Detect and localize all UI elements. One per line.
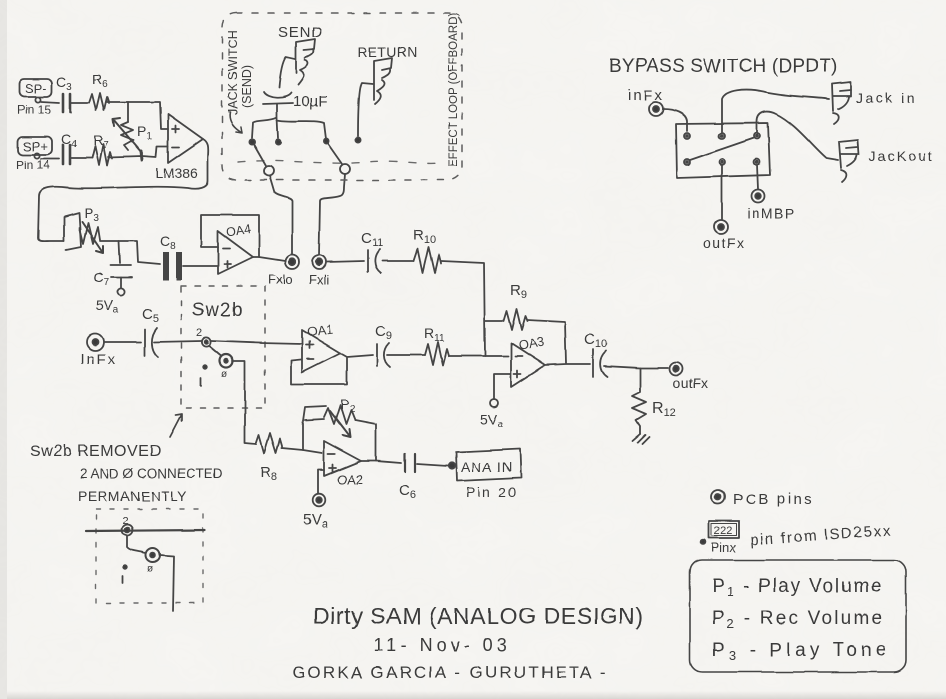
ground below R12 [632, 434, 649, 444]
svg-text:10µF: 10µF [293, 93, 328, 110]
wire OA2 output to C6 [361, 461, 401, 463]
replacement jumper wire [127, 536, 146, 553]
svg-text:PERMANENTLY: PERMANENTLY [78, 488, 188, 504]
effect loop offboard dashed enclosure [222, 13, 462, 180]
power 5Va at OA2 [303, 494, 328, 530]
OA1 feedback wire [291, 358, 347, 384]
node outFx pcb pin (output) [670, 363, 709, 392]
resistor R7 [92, 132, 112, 165]
capacitor C10 [584, 331, 607, 377]
node inFx pcb pin [649, 102, 663, 116]
callout arrow to send contact [230, 112, 242, 133]
wire InFx to C5 [104, 341, 141, 343]
svg-text:P1 - Play Volume: P1 - Play Volume [712, 576, 883, 599]
svg-text:ø: ø [147, 564, 153, 575]
svg-text:Pin 15: Pin 15 [17, 103, 51, 117]
svg-text:Pinx: Pinx [711, 540, 737, 555]
wire switch to Jack out [757, 112, 838, 160]
node Fxlo pcb pin [268, 255, 299, 287]
node inMBP pcb pin [747, 190, 796, 222]
pin 15 label [17, 97, 51, 117]
svg-text:outFx: outFx [673, 375, 708, 391]
svg-text:2: 2 [196, 327, 202, 339]
wire C5 to Sw2b [154, 341, 201, 342]
svg-text:ø: ø [221, 369, 227, 380]
wire C9 to R11 [387, 354, 425, 356]
svg-text:EFFECT LOOP (OFFBOARD): EFFECT LOOP (OFFBOARD) [448, 13, 460, 167]
svg-text:SP+: SP+ [23, 139, 48, 154]
svg-text:JacKout: JacKout [869, 148, 934, 164]
wire OA4 output to node Fxlo [253, 257, 285, 261]
wire C11 to R10 [382, 260, 414, 262]
svg-text:Sw2b REMOVED: Sw2b REMOVED [30, 443, 161, 460]
resistor R6 [89, 71, 109, 110]
wire C10 to outFx with R12 node [604, 366, 668, 368]
svg-text:Pin 20: Pin 20 [466, 484, 518, 500]
op-amp U4 OA4 [218, 222, 253, 274]
svg-text:Jack in: Jack in [856, 90, 917, 106]
svg-text:Dirty SAM (ANALOG DESIGN): Dirty SAM (ANALOG DESIGN) [313, 603, 644, 629]
svg-text:2 AND Ø CONNECTED: 2 AND Ø CONNECTED [80, 466, 223, 481]
wire inFx to switch pole 1 [663, 109, 687, 131]
replacement sketch dashed box [96, 509, 203, 603]
wire R11 to OA3 - input with node [449, 355, 508, 357]
note arrow to Sw2b box [170, 414, 182, 437]
wire pin15 to C3 [41, 102, 59, 103]
Sw2b terminal 1 mark [201, 365, 207, 386]
wire switch to inMBP [757, 165, 758, 189]
Jack in symbol [832, 82, 851, 124]
resistor R12 [632, 368, 676, 434]
capacitor C6 [399, 454, 416, 501]
wire Fxli up to return switch throw [319, 174, 345, 255]
SP+ connector label box [18, 137, 52, 155]
wire junction down to P1 top [127, 102, 129, 122]
Sw2b pole 2 contact [196, 327, 211, 347]
title block [292, 603, 644, 682]
legend isd pin symbol [701, 521, 893, 555]
op-amp U1 LM386 [155, 114, 203, 181]
op-amp U5 OA2 [324, 441, 363, 487]
svg-text:PCB pins: PCB pins [733, 491, 814, 508]
wire R10 down to OA3 input node [441, 261, 485, 356]
junction dot at ANA IN [449, 463, 455, 469]
replacement terminal 1 mark [123, 565, 127, 583]
op-amp U3 OA3 [511, 334, 545, 387]
ANA IN connector box [456, 449, 521, 481]
pin 14 label [16, 153, 50, 172]
capacitor C4 [61, 131, 77, 164]
svg-text:RETURN: RETURN [357, 44, 418, 60]
potentiometer P2 feedback [303, 396, 376, 461]
node Fxli pcb pin [309, 255, 329, 287]
wiper junction blob [141, 151, 142, 160]
potentiometer P1 [113, 118, 152, 153]
node InFx pcb pin [80, 334, 117, 369]
send tip contact a [249, 139, 254, 144]
wire R8 to OA2 - input [282, 448, 322, 453]
Sw2b throw arm [209, 346, 233, 368]
SEND jack symbol [296, 39, 315, 85]
Jack out symbol [839, 140, 859, 182]
resistor R11 [424, 325, 449, 365]
legend potentiometer box [690, 560, 906, 672]
capacitor C8 [160, 233, 179, 280]
power 5Va at OA3 [480, 399, 503, 430]
wire Sw2b to OA1 + input [211, 341, 302, 344]
svg-text:Pin 14: Pin 14 [16, 158, 50, 172]
power 5Va at C7 [96, 288, 125, 316]
svg-text:SEND: SEND [278, 24, 323, 41]
wire R7 to LM386 - input [108, 146, 168, 157]
svg-text:11- Nov- 03: 11- Nov- 03 [374, 635, 511, 655]
svg-text:inFx: inFx [628, 87, 664, 104]
return contact [355, 137, 360, 142]
wire switch to Jack in [722, 90, 829, 133]
switch S1 body DPDT [676, 123, 770, 178]
send tip contact c [323, 138, 328, 143]
svg-text:Sw2b: Sw2b [192, 300, 244, 321]
wire OA1 output to C9 [340, 353, 373, 357]
resistor R8 [256, 433, 282, 483]
OA4 feedback wire [201, 215, 259, 257]
wire Sw2b throw down to R8 [232, 361, 256, 444]
resistor R9 feedback [485, 282, 566, 363]
svg-text:Fxlo: Fxlo [268, 272, 293, 287]
wire OA2 + input to 5Va [318, 470, 324, 493]
wire Fxli to C11 [327, 261, 364, 262]
replacement wire bus [86, 530, 205, 531]
svg-text:ANA IN: ANA IN [461, 459, 513, 475]
resistor R10 [413, 227, 441, 273]
wire P3 to C7 node and on to C8 [100, 241, 160, 264]
op-amp U2 OA1 [302, 322, 340, 372]
wire C4 to R7 [71, 157, 92, 159]
replacement contact 2 [122, 515, 133, 536]
svg-text:222: 222 [714, 525, 732, 537]
capacitor C 10uF polarized [263, 92, 328, 110]
svg-text:GORKA GARCIA - GURUTHETA -: GORKA GARCIA - GURUTHETA - [292, 663, 608, 682]
send switch throw arm a [254, 145, 274, 176]
legend pcb pin symbol [711, 490, 814, 508]
wire pin14 to C4 [41, 158, 59, 160]
note sw2b removed [30, 443, 223, 504]
capacitor C9 [375, 323, 392, 367]
wire OA3 + input to 5Va [494, 374, 511, 399]
potentiometer P3 [64, 205, 103, 253]
svg-text:SP-: SP- [25, 81, 47, 96]
capacitor C11 [361, 230, 383, 273]
svg-text:Fxli: Fxli [309, 272, 329, 287]
node outFx pcb pin (bypass) [703, 220, 746, 251]
wire OA3 output to C10 [545, 364, 590, 365]
svg-text:(SEND): (SEND) [240, 65, 254, 108]
svg-text:LM386: LM386 [155, 165, 198, 181]
svg-text:BYPASS SWITCH (DPDT): BYPASS SWITCH (DPDT) [609, 56, 838, 77]
RETURN jack symbol [374, 58, 392, 104]
switch Sw2b dashed enclosure [181, 286, 265, 408]
wire C3 to R6 [71, 102, 89, 104]
svg-text:OA1: OA1 [306, 322, 333, 340]
send switch throw arm b [328, 144, 350, 174]
svg-text:outFx: outFx [703, 235, 746, 251]
jack switch (send) rotated note [226, 30, 254, 115]
replacement wire out [160, 555, 174, 611]
wire C6 to ANA IN [417, 464, 448, 466]
wire switch to outFx [721, 165, 723, 219]
capacitor C5 [142, 306, 159, 357]
capacitor C3 [56, 74, 72, 112]
capacitor C7 [93, 241, 132, 288]
send tip contact b [275, 139, 280, 144]
svg-text:inMBP: inMBP [747, 205, 796, 221]
wire 10uF to switch common contacts [252, 104, 326, 139]
wire Fxlo up to send switch throw [270, 176, 292, 255]
wire LM386 output feedback loop to P3 [38, 139, 208, 241]
svg-text:JACK SWITCH: JACK SWITCH [226, 30, 240, 115]
SP- connector label box [19, 79, 52, 97]
replacement terminal 0 [146, 548, 160, 575]
wire SEND jack to 10uF [279, 57, 295, 88]
wire C8 to OA4 + input [183, 265, 217, 267]
wire R6 to LM386 + input [107, 102, 168, 129]
wire RETURN jack to contact [358, 83, 373, 136]
svg-text:P2 - Rec Volume: P2 - Rec Volume [712, 608, 884, 631]
svg-text:InFx: InFx [80, 351, 117, 368]
svg-text:OA2: OA2 [337, 472, 363, 487]
